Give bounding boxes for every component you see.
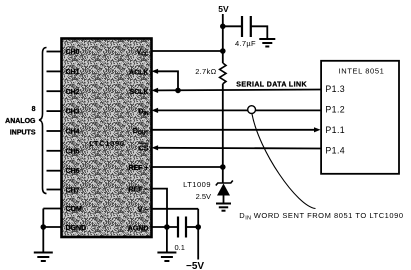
ground GND3 (LT1009): [216, 204, 231, 211]
wire COM-DGND ground bus: [42, 209, 44, 253]
svg-text:2.5V: 2.5V: [196, 192, 211, 201]
wire DGND stub: [43, 226, 61, 228]
svg-text:DIN WORD SENT FROM 8051 TO LTC: DIN WORD SENT FROM 8051 TO LTC1090: [239, 211, 403, 222]
svg-text:−5V: −5V: [186, 261, 204, 270]
svg-text:P1.2: P1.2: [325, 105, 345, 115]
wire AGND to C2: [152, 226, 178, 228]
wire DIN to P1.2: [158, 109, 321, 111]
wire CH2 stub: [47, 90, 62, 92]
arrow CS: [152, 145, 159, 150]
wire CH4 stub: [47, 130, 62, 132]
wire CH7 stub: [47, 189, 62, 191]
svg-text:CH7: CH7: [66, 188, 80, 195]
ground GND2 (C1): [259, 39, 275, 47]
node ACLK/SCLK junction: [175, 88, 181, 94]
svg-text:REF −: REF −: [128, 187, 148, 194]
wire REF- jog: [152, 189, 168, 227]
wire C1 to ground: [251, 26, 267, 39]
wire CS to P1.4: [158, 147, 321, 150]
svg-text:8: 8: [32, 106, 36, 113]
svg-text:DGND: DGND: [66, 225, 87, 232]
wire V- horizontal: [152, 208, 199, 210]
svg-text:COM: COM: [66, 206, 83, 213]
svg-text:0.1: 0.1: [175, 243, 185, 252]
svg-text:SERIAL DATA LINK: SERIAL DATA LINK: [236, 82, 307, 89]
wire CH6 stub: [47, 170, 62, 172]
annotation pointer curve: [252, 114, 316, 209]
wire REF+ to LT1009: [152, 166, 223, 168]
svg-text:CS: CS: [139, 145, 149, 152]
wire CH3 stub: [47, 110, 62, 112]
svg-text:P1.3: P1.3: [325, 84, 345, 94]
node DIN probe circle: [248, 106, 256, 114]
node VCC junction: [220, 48, 226, 54]
capacitor C1 4.7uF: [242, 16, 251, 37]
node COM/DGND junction: [41, 224, 47, 230]
wire C2 to V- drop: [186, 226, 198, 228]
IC U2 INTEL 8051 box: [321, 61, 399, 174]
node C2/V- junction: [195, 224, 201, 230]
arrow DOUT into 8051: [314, 127, 321, 132]
svg-text:SCLK: SCLK: [129, 89, 148, 96]
arrow DIN: [152, 108, 159, 113]
wire 5V to C1: [223, 25, 241, 27]
wire SCLK to P1.3: [158, 89, 321, 92]
wire ACLK jog: [158, 71, 178, 90]
svg-text:P1.4: P1.4: [325, 145, 345, 155]
svg-text:LT1009: LT1009: [183, 180, 211, 189]
svg-text:4.7µF: 4.7µF: [235, 39, 256, 48]
node 5V cap junction: [220, 24, 226, 30]
svg-text:ACLK: ACLK: [129, 69, 148, 76]
svg-text:LTC1090: LTC1090: [89, 139, 125, 148]
wire VCC to 5V rail: [152, 50, 223, 52]
wire DOUT to P1.1: [152, 129, 315, 131]
svg-text:REF +: REF +: [128, 165, 148, 172]
resistor R1 2.7k: [220, 63, 226, 84]
svg-text:5V: 5V: [218, 4, 229, 14]
svg-text:CH4: CH4: [66, 129, 80, 136]
wire CH1 stub: [47, 70, 62, 72]
svg-text:AGND: AGND: [128, 226, 149, 233]
brace 8 analog inputs: [39, 48, 47, 194]
arrow ACLK: [152, 69, 159, 74]
svg-text:CH3: CH3: [66, 109, 80, 116]
svg-text:INPUTS: INPUTS: [10, 129, 36, 136]
node AGND/REF- junction: [164, 224, 170, 230]
svg-text:CH0: CH0: [66, 49, 80, 56]
svg-text:ANALOG: ANALOG: [5, 118, 36, 125]
svg-text:INTEL 8051: INTEL 8051: [339, 67, 385, 76]
svg-text:P1.1: P1.1: [325, 125, 345, 135]
svg-text:CH5: CH5: [66, 148, 80, 155]
svg-text:CH2: CH2: [66, 89, 80, 96]
arrow SCLK: [152, 88, 159, 93]
wire 5V vertical: [222, 14, 224, 63]
zener D1 LT1009: [216, 181, 233, 204]
wire R1 bottom to REF+ node: [222, 84, 224, 167]
label LT1009 2.5V: [183, 180, 211, 201]
wire CH0 stub: [47, 51, 62, 53]
ground GND4 (AGND): [157, 253, 176, 262]
ground GND1 (DGND): [34, 253, 53, 262]
svg-text:2.7kΩ: 2.7kΩ: [195, 67, 216, 76]
wire AGND ground stem: [166, 227, 168, 253]
svg-text:CH1: CH1: [66, 69, 80, 76]
label 8 ANALOG INPUTS: [5, 106, 36, 136]
IC U1 LTC1090 body: [62, 39, 152, 238]
svg-text:CH6: CH6: [66, 168, 80, 175]
wire V- drop to -5V: [197, 209, 199, 260]
svg-text:V −: V −: [138, 207, 149, 214]
pin label CS: [138, 143, 149, 152]
wire REF+ node to zener: [222, 167, 224, 183]
node REF+ junction: [220, 164, 226, 170]
wire CH5 stub: [47, 150, 62, 152]
capacitor C2 0.1uF: [178, 217, 186, 238]
wire COM stub: [43, 208, 61, 210]
